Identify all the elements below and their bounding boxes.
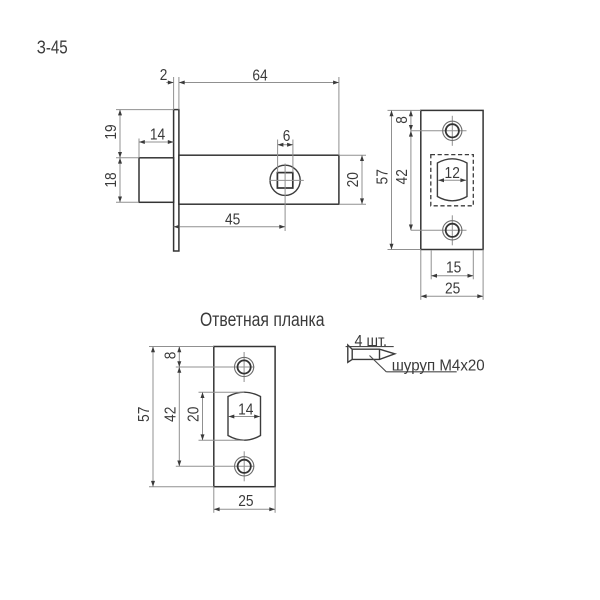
faceplate front view outline <box>421 110 483 249</box>
screw shaft <box>352 349 395 359</box>
dim 12 line and arrows <box>438 179 466 181</box>
svg-text:8: 8 <box>162 352 179 360</box>
strike top screw hole centerlines <box>176 366 255 368</box>
latch body hidden outline (dashed) <box>431 155 474 206</box>
svg-text:шуруп М4х20: шуруп М4х20 <box>392 357 485 374</box>
spindle vertical centerline <box>284 164 286 232</box>
dim 14 line and arrows <box>139 141 174 143</box>
svg-text:42: 42 <box>162 407 179 422</box>
strike dim 20 line and arrows <box>202 392 204 440</box>
dim 64 line <box>187 82 339 84</box>
faceplate side view <box>174 110 179 251</box>
svg-text:14: 14 <box>238 401 253 418</box>
faceplate latch opening <box>437 159 467 201</box>
svg-text:57: 57 <box>375 169 392 184</box>
dim 64 right arrow <box>333 81 339 85</box>
svg-text:Ответная планка: Ответная планка <box>200 310 325 331</box>
strike bottom screw hole countersink <box>235 457 254 476</box>
svg-text:57: 57 <box>136 407 153 422</box>
faceplate bottom screw hole countersink <box>443 221 462 240</box>
dim 20 line and arrows <box>361 155 363 204</box>
dim 2 extension lines <box>173 77 175 110</box>
svg-text:14: 14 <box>150 126 165 143</box>
svg-text:42: 42 <box>394 169 411 184</box>
screw leader line <box>370 356 387 372</box>
faceplate top screw hole <box>446 124 459 137</box>
svg-text:64: 64 <box>252 67 267 84</box>
svg-text:8: 8 <box>394 116 411 124</box>
dim 25 line and arrows <box>421 295 483 297</box>
strike dim 25 line and arrows <box>214 508 275 510</box>
svg-text:20: 20 <box>186 407 203 422</box>
latch bolt side view <box>139 158 174 203</box>
faceplate bottom screw hole <box>446 224 459 237</box>
faceplate top screw hole countersink <box>443 121 462 140</box>
dim 14 extension line <box>138 139 140 158</box>
svg-text:З-45: З-45 <box>37 38 68 58</box>
svg-text:25: 25 <box>445 281 460 298</box>
dim 19 line and arrows <box>119 110 121 158</box>
svg-text:2: 2 <box>160 67 168 84</box>
dim 57 line and arrows <box>391 110 393 249</box>
faceplate bottom screw hole centerlines <box>411 229 467 231</box>
strike dim 8 line and arrows <box>178 347 180 368</box>
strike dim 20 extension lines <box>199 391 245 393</box>
dim 6 extension lines <box>277 140 279 173</box>
dim 15 line and arrows <box>431 275 473 277</box>
svg-text:19: 19 <box>103 124 120 139</box>
svg-text:6: 6 <box>283 128 291 145</box>
dim 57 extension lines <box>388 109 421 111</box>
dim 6 line and arrows <box>278 144 293 146</box>
svg-text:15: 15 <box>446 259 461 276</box>
dim 18 line and arrows <box>119 158 121 203</box>
svg-text:18: 18 <box>103 172 120 187</box>
strike top screw hole countersink <box>235 357 254 376</box>
dim 15 extension lines <box>430 251 432 280</box>
spindle hub circle <box>270 165 300 195</box>
dim 20 extension lines <box>339 154 366 156</box>
dim 2 line and arrows <box>166 82 173 84</box>
svg-text:20: 20 <box>345 172 362 187</box>
spindle horizontal centerline <box>270 179 304 181</box>
screw point junction line <box>379 349 381 359</box>
strike bottom screw hole centerlines <box>176 465 255 467</box>
strike top screw hole <box>238 360 251 373</box>
latch body side view <box>179 155 339 204</box>
dim 25 extension lines <box>420 250 422 300</box>
screw countersunk head <box>348 345 352 362</box>
strike dim 25 extension lines <box>213 487 215 513</box>
strike bottom screw hole <box>238 460 251 473</box>
svg-text:25: 25 <box>238 493 253 510</box>
strike dim 14 line and arrows <box>229 416 261 418</box>
svg-text:45: 45 <box>225 211 240 228</box>
dim 19 extension lines <box>116 109 174 111</box>
screw quantity underline <box>346 346 394 348</box>
dim 45 line and arrows <box>174 226 286 228</box>
strike dim 57 line and arrows <box>152 347 154 487</box>
dim 42 line and arrows <box>410 131 412 231</box>
strike plate outline <box>214 347 275 487</box>
strike dim 42 line and arrows <box>178 367 180 466</box>
faceplate top screw hole centerlines <box>411 130 467 132</box>
dim 8 line and arrows <box>410 110 412 130</box>
svg-text:12: 12 <box>445 165 460 182</box>
strike latch opening <box>228 392 261 440</box>
spindle square hole <box>277 173 292 188</box>
dim 64 extension line right <box>338 77 340 155</box>
svg-text:4 шт.: 4 шт. <box>355 333 388 350</box>
dim 18 extension line <box>116 201 139 203</box>
strike dim 57 extension lines <box>149 346 214 348</box>
